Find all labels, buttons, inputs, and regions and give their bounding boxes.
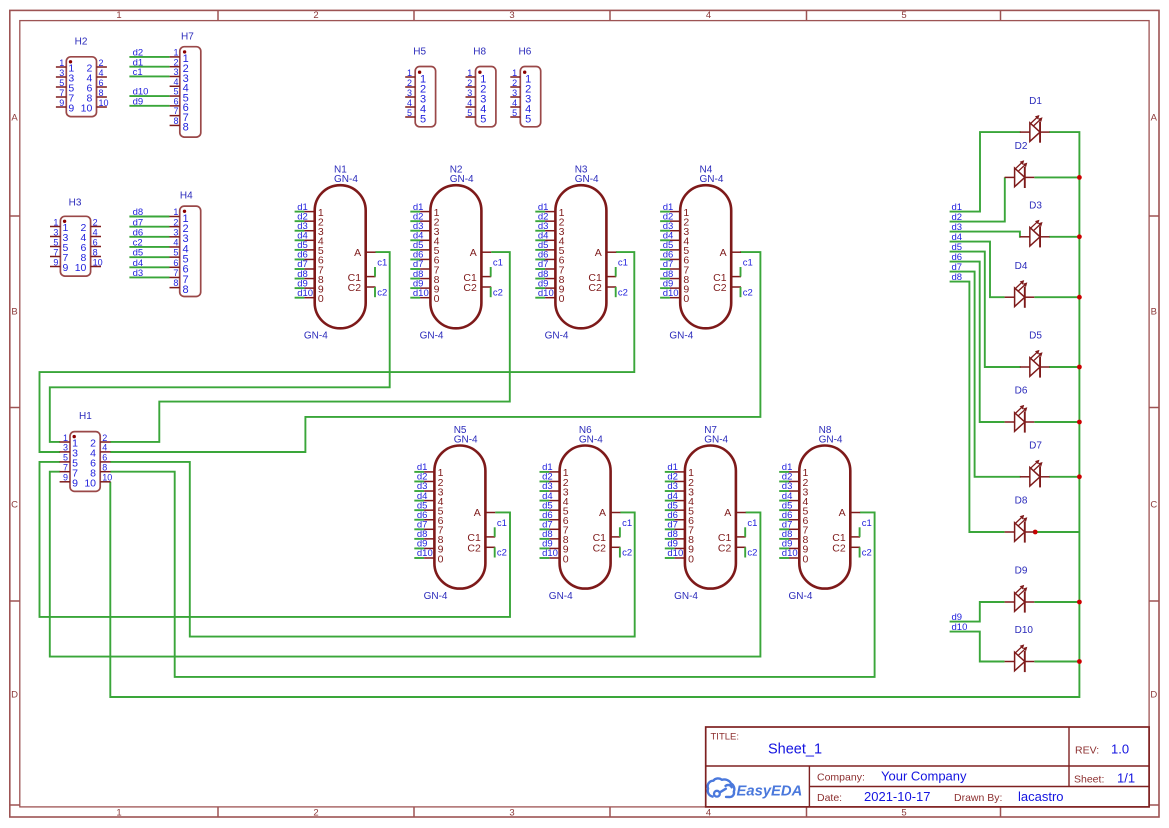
svg-text:A: A [474, 507, 481, 519]
svg-text:2: 2 [467, 78, 472, 88]
svg-text:A: A [839, 507, 846, 519]
svg-text:A: A [720, 247, 727, 259]
svg-text:10: 10 [84, 478, 96, 490]
svg-text:Your Company: Your Company [881, 769, 967, 784]
svg-text:c1: c1 [618, 258, 628, 269]
svg-text:5: 5 [63, 453, 68, 463]
svg-text:c2: c2 [743, 287, 753, 298]
svg-text:8: 8 [93, 247, 98, 257]
svg-text:D: D [1150, 690, 1157, 701]
svg-text:D10: D10 [1015, 625, 1034, 636]
svg-text:c2: c2 [497, 548, 507, 559]
svg-text:10: 10 [93, 257, 103, 267]
svg-text:4: 4 [102, 443, 107, 453]
svg-text:D9: D9 [1015, 566, 1028, 577]
svg-text:1.0: 1.0 [1111, 742, 1129, 757]
svg-text:2: 2 [407, 78, 412, 88]
svg-text:REV:: REV: [1075, 745, 1099, 757]
svg-text:5: 5 [420, 113, 426, 125]
svg-text:A: A [1151, 113, 1158, 124]
svg-text:GN-4: GN-4 [669, 331, 693, 342]
svg-text:A: A [595, 247, 602, 259]
svg-text:A: A [724, 507, 731, 519]
svg-text:4: 4 [706, 807, 711, 818]
svg-text:0: 0 [318, 293, 324, 305]
svg-text:c2: c2 [618, 287, 628, 298]
svg-text:10: 10 [102, 473, 112, 483]
svg-text:c1: c1 [622, 518, 632, 529]
svg-text:C2: C2 [588, 282, 602, 294]
svg-text:0: 0 [563, 553, 569, 565]
svg-text:C2: C2 [467, 543, 481, 555]
svg-text:1: 1 [59, 58, 64, 68]
svg-text:c1: c1 [493, 258, 503, 269]
svg-text:5: 5 [53, 237, 58, 247]
svg-text:D7: D7 [1029, 441, 1042, 452]
svg-text:0: 0 [683, 293, 689, 305]
svg-text:1: 1 [116, 10, 121, 21]
svg-text:4: 4 [173, 238, 178, 248]
svg-text:4: 4 [173, 77, 178, 87]
svg-text:GN-4: GN-4 [704, 435, 728, 446]
svg-text:D3: D3 [1029, 201, 1042, 212]
svg-text:Sheet:: Sheet: [1074, 774, 1104, 786]
svg-text:1: 1 [63, 433, 68, 443]
svg-text:C2: C2 [713, 282, 727, 294]
svg-text:3: 3 [59, 68, 64, 78]
svg-text:C2: C2 [718, 543, 732, 555]
svg-text:9: 9 [63, 473, 68, 483]
svg-text:0: 0 [803, 553, 809, 565]
svg-text:c2: c2 [622, 548, 632, 559]
svg-text:GN-4: GN-4 [304, 331, 328, 342]
svg-text:3: 3 [509, 10, 514, 21]
svg-text:0: 0 [434, 293, 440, 305]
svg-text:3: 3 [467, 88, 472, 98]
svg-text:TITLE:: TITLE: [711, 732, 740, 743]
svg-text:c2: c2 [747, 548, 757, 559]
svg-text:4: 4 [706, 10, 711, 21]
svg-text:3: 3 [509, 807, 514, 818]
svg-text:2: 2 [173, 57, 178, 67]
svg-text:9: 9 [59, 98, 64, 108]
svg-text:7: 7 [59, 88, 64, 98]
svg-text:1: 1 [407, 68, 412, 78]
svg-text:GN-4: GN-4 [700, 174, 724, 185]
svg-text:D6: D6 [1015, 386, 1028, 397]
svg-text:3: 3 [512, 88, 517, 98]
svg-text:Sheet_1: Sheet_1 [768, 742, 822, 758]
svg-text:d10: d10 [542, 548, 558, 559]
svg-text:1: 1 [467, 68, 472, 78]
svg-text:3: 3 [407, 88, 412, 98]
svg-text:5: 5 [173, 248, 178, 258]
svg-text:GN-4: GN-4 [545, 331, 569, 342]
svg-text:B: B [11, 307, 17, 318]
svg-text:2: 2 [102, 433, 107, 443]
svg-text:d10: d10 [417, 548, 433, 559]
svg-text:5: 5 [901, 807, 906, 818]
svg-text:0: 0 [688, 553, 694, 565]
svg-text:d9: d9 [133, 96, 144, 107]
svg-text:5: 5 [525, 113, 531, 125]
svg-text:3: 3 [53, 227, 58, 237]
svg-text:D1: D1 [1029, 96, 1042, 107]
svg-text:9: 9 [53, 257, 58, 267]
svg-text:4: 4 [99, 68, 104, 78]
svg-text:H5: H5 [413, 47, 426, 58]
svg-text:5: 5 [59, 78, 64, 88]
svg-text:9: 9 [63, 262, 69, 274]
svg-text:c1: c1 [743, 258, 753, 269]
svg-text:GN-4: GN-4 [450, 174, 474, 185]
svg-text:d3: d3 [133, 268, 144, 279]
svg-text:d10: d10 [667, 548, 683, 559]
svg-text:D5: D5 [1029, 331, 1042, 342]
svg-text:GN-4: GN-4 [454, 435, 478, 446]
svg-text:D4: D4 [1015, 261, 1028, 272]
svg-text:d10: d10 [952, 622, 968, 633]
svg-text:C2: C2 [348, 282, 362, 294]
svg-text:8: 8 [173, 278, 178, 288]
svg-text:8: 8 [183, 122, 189, 134]
svg-text:5: 5 [173, 87, 178, 97]
svg-text:C2: C2 [832, 543, 846, 555]
svg-text:7: 7 [63, 463, 68, 473]
svg-text:D: D [11, 690, 18, 701]
svg-text:3: 3 [63, 443, 68, 453]
svg-text:lacastro: lacastro [1018, 789, 1064, 804]
svg-text:1: 1 [512, 68, 517, 78]
svg-text:5: 5 [407, 108, 412, 118]
svg-text:Date:: Date: [817, 792, 842, 804]
svg-text:c1: c1 [133, 67, 143, 78]
svg-text:2021-10-17: 2021-10-17 [864, 789, 931, 804]
svg-text:0: 0 [438, 553, 444, 565]
svg-text:D8: D8 [1015, 496, 1028, 507]
svg-text:3: 3 [173, 227, 178, 237]
svg-text:Drawn By:: Drawn By: [954, 792, 1002, 804]
svg-text:1: 1 [173, 207, 178, 217]
svg-text:GN-4: GN-4 [334, 174, 358, 185]
svg-text:1: 1 [173, 48, 178, 58]
svg-text:A: A [354, 247, 361, 259]
svg-text:6: 6 [102, 453, 107, 463]
svg-text:6: 6 [173, 96, 178, 106]
svg-text:C2: C2 [463, 282, 477, 294]
svg-text:9: 9 [72, 478, 78, 490]
svg-text:GN-4: GN-4 [674, 591, 698, 602]
svg-text:2: 2 [313, 10, 318, 21]
svg-text:d10: d10 [413, 288, 429, 299]
svg-text:H1: H1 [79, 411, 92, 422]
svg-text:4: 4 [467, 98, 472, 108]
svg-text:5: 5 [467, 108, 472, 118]
svg-text:GN-4: GN-4 [420, 331, 444, 342]
svg-text:d10: d10 [782, 548, 798, 559]
svg-text:6: 6 [99, 78, 104, 88]
svg-text:10: 10 [75, 262, 87, 274]
svg-text:d8: d8 [952, 272, 963, 283]
svg-text:5: 5 [512, 108, 517, 118]
svg-text:D2: D2 [1015, 141, 1028, 152]
svg-text:8: 8 [173, 116, 178, 126]
svg-text:9: 9 [68, 103, 74, 115]
svg-text:0: 0 [559, 293, 565, 305]
svg-text:2: 2 [512, 78, 517, 88]
svg-text:GN-4: GN-4 [819, 435, 843, 446]
svg-text:10: 10 [81, 103, 93, 115]
svg-text:c1: c1 [862, 518, 872, 529]
svg-text:c2: c2 [493, 287, 503, 298]
svg-text:GN-4: GN-4 [579, 435, 603, 446]
svg-text:c1: c1 [497, 518, 507, 529]
svg-text:A: A [470, 247, 477, 259]
svg-text:GN-4: GN-4 [575, 174, 599, 185]
svg-text:c2: c2 [377, 287, 387, 298]
svg-text:GN-4: GN-4 [789, 591, 813, 602]
svg-text:3: 3 [173, 67, 178, 77]
svg-text:2: 2 [93, 217, 98, 227]
svg-text:7: 7 [173, 268, 178, 278]
svg-text:C: C [11, 500, 18, 511]
svg-text:C: C [1150, 500, 1157, 511]
svg-text:c1: c1 [747, 518, 757, 529]
svg-text:1/1: 1/1 [1117, 771, 1135, 786]
svg-text:H8: H8 [473, 47, 486, 58]
svg-text:4: 4 [407, 98, 412, 108]
svg-text:C2: C2 [593, 543, 607, 555]
svg-text:H3: H3 [69, 197, 82, 208]
svg-text:2: 2 [173, 217, 178, 227]
svg-text:4: 4 [93, 227, 98, 237]
svg-text:B: B [1151, 307, 1157, 318]
svg-text:4: 4 [512, 98, 517, 108]
svg-text:d10: d10 [538, 288, 554, 299]
svg-text:H2: H2 [75, 37, 88, 48]
svg-text:H7: H7 [181, 32, 194, 43]
svg-text:1: 1 [116, 807, 121, 818]
svg-text:7: 7 [173, 106, 178, 116]
svg-text:GN-4: GN-4 [424, 591, 448, 602]
svg-text:8: 8 [183, 284, 189, 296]
svg-text:10: 10 [99, 98, 109, 108]
svg-text:A: A [11, 113, 18, 124]
svg-text:5: 5 [480, 113, 486, 125]
svg-text:7: 7 [53, 247, 58, 257]
svg-text:d10: d10 [297, 288, 313, 299]
svg-text:6: 6 [93, 237, 98, 247]
svg-text:2: 2 [313, 807, 318, 818]
svg-text:8: 8 [99, 88, 104, 98]
svg-text:5: 5 [901, 10, 906, 21]
svg-text:8: 8 [102, 463, 107, 473]
svg-text:c2: c2 [862, 548, 872, 559]
svg-text:Company:: Company: [817, 772, 865, 784]
svg-text:d10: d10 [663, 288, 679, 299]
svg-text:1: 1 [53, 217, 58, 227]
svg-text:GN-4: GN-4 [549, 591, 573, 602]
svg-text:H4: H4 [180, 191, 193, 202]
svg-text:6: 6 [173, 258, 178, 268]
svg-text:EasyEDA: EasyEDA [737, 784, 803, 800]
svg-text:2: 2 [99, 58, 104, 68]
svg-text:H6: H6 [519, 47, 532, 58]
svg-text:c1: c1 [377, 258, 387, 269]
svg-text:A: A [599, 507, 606, 519]
